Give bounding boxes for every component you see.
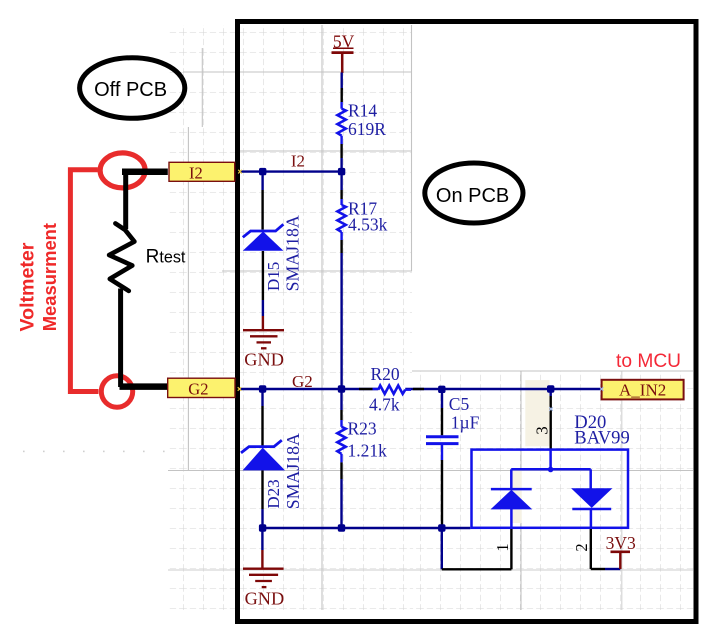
faint dot row [23, 451, 165, 453]
junction rail/R23 [338, 524, 345, 531]
svg-text:to MCU: to MCU [616, 351, 681, 372]
black wire top (probe to I2 label) [122, 169, 168, 176]
wire G2 left [240, 388, 378, 390]
capacitor C5 [426, 437, 459, 444]
highlight rect pin 1 inner [512, 471, 522, 523]
svg-text:Off PCB: Off PCB [94, 79, 167, 101]
net label A_IN2 [602, 380, 684, 400]
grid major lines [168, 25, 693, 610]
D20 right diode triangle [571, 488, 612, 508]
black wire Rtest to probe bottom [118, 289, 123, 388]
D20 left diode triangle [491, 490, 533, 510]
resistor R14 [337, 109, 345, 136]
tick pin3 [549, 407, 553, 411]
resistor R20 [378, 386, 405, 394]
wire to A_IN2 tick [238, 170, 242, 174]
svg-text:1: 1 [493, 543, 512, 551]
svg-text:D23: D23 [264, 479, 283, 508]
junction G2/R23 [338, 385, 345, 392]
svg-text:R14: R14 [348, 100, 377, 120]
svg-text:5V: 5V [333, 31, 355, 51]
black wire bottom (probe to G2 label) [120, 383, 168, 390]
diode D15 TVS bar [243, 224, 284, 237]
wire 5V to R14 [341, 73, 343, 91]
component D20 body [472, 450, 629, 528]
power 3V3 [619, 553, 621, 569]
svg-text:R20: R20 [371, 364, 400, 384]
probe circle bottom [101, 376, 132, 407]
wire D15 branch [261, 172, 263, 190]
svg-text:GND: GND [245, 589, 285, 609]
resistor Rtest [109, 223, 134, 291]
svg-text:3V3: 3V3 [606, 533, 636, 553]
svg-text:1µF: 1µF [451, 412, 480, 432]
wire D15 to GND [262, 251, 264, 300]
ellipse On PCB [425, 163, 523, 223]
svg-text:4.7k: 4.7k [369, 394, 400, 414]
svg-text:G2: G2 [188, 379, 208, 398]
wire G2 right [405, 388, 601, 390]
svg-text:SMAJ18A: SMAJ18A [282, 215, 302, 291]
diode D23 triangle [243, 448, 285, 471]
svg-text:G2: G2 [292, 372, 313, 391]
junction I2/R14 [338, 168, 345, 175]
wire node to R17 [340, 172, 342, 190]
wire D23 branch [261, 389, 263, 406]
power 5V [332, 48, 354, 73]
ground GND (rail) [243, 569, 284, 587]
junction rail/GND [259, 524, 266, 531]
svg-text:On PCB: On PCB [436, 185, 509, 207]
svg-text:GND: GND [244, 349, 284, 369]
svg-text:R23: R23 [348, 419, 377, 439]
svg-text:A_IN2: A_IN2 [619, 380, 666, 399]
svg-text:3: 3 [532, 426, 551, 434]
svg-text:4.53k: 4.53k [348, 214, 388, 234]
wire pin2 [590, 529, 592, 569]
junction G2/D23 [259, 385, 266, 392]
diode D15 triangle [243, 232, 284, 251]
D20 internal wires [491, 450, 611, 528]
wire I2 [240, 170, 342, 172]
black wire down to Rtest [123, 172, 128, 229]
junction rail/C5 [438, 524, 445, 531]
resistor R23 leads [340, 389, 342, 410]
svg-text:619R: 619R [348, 119, 386, 139]
net label I2 [169, 162, 235, 181]
probe circle top [100, 153, 145, 188]
ground GND (D15) [243, 330, 284, 348]
svg-text:D15: D15 [264, 262, 283, 291]
wire rail to GND2 [261, 531, 263, 550]
tick A_IN2 [600, 387, 604, 391]
svg-text:Rtest: Rtest [146, 247, 186, 268]
svg-text:C5: C5 [449, 394, 470, 414]
diode D23 TVS bar [241, 440, 282, 453]
net label G2 [168, 378, 235, 397]
junction I2/D15 [259, 168, 266, 175]
wire pin3 [550, 389, 552, 396]
svg-text:SMAJ18A: SMAJ18A [283, 433, 303, 509]
svg-text:1.21k: 1.21k [348, 441, 388, 461]
resistor R23 [337, 427, 345, 454]
svg-text:BAV99: BAV99 [574, 428, 629, 449]
highlight rect pin 3 [525, 380, 549, 446]
svg-text:I2: I2 [189, 163, 203, 182]
svg-text:2: 2 [572, 543, 591, 551]
voltmeter red wire [70, 170, 98, 392]
capacitor C5 leads [441, 389, 443, 408]
text Voltmeter Measurment [16, 223, 60, 332]
wire R17 to G2 [340, 232, 342, 240]
wire R14 to I2 node [340, 136, 342, 144]
ellipse Off PCB [80, 58, 185, 119]
svg-text:Voltmeter: Voltmeter [16, 242, 38, 331]
D20 internal junction [548, 467, 554, 473]
wire D23 to rail [261, 470, 263, 509]
grid minor region bottom-right [412, 371, 694, 610]
svg-text:I2: I2 [291, 151, 305, 170]
svg-text:Measurment: Measurment [39, 223, 60, 331]
PCB boundary box [238, 22, 697, 622]
grid minor region top-left [168, 25, 412, 390]
resistor R17 [337, 205, 345, 232]
junction G2/C5 [438, 386, 445, 393]
wire pin1 [441, 531, 443, 569]
bottom rail wire [262, 527, 470, 529]
junction G2/pin3 [547, 385, 554, 392]
grid minor region bottom-left [168, 390, 412, 610]
